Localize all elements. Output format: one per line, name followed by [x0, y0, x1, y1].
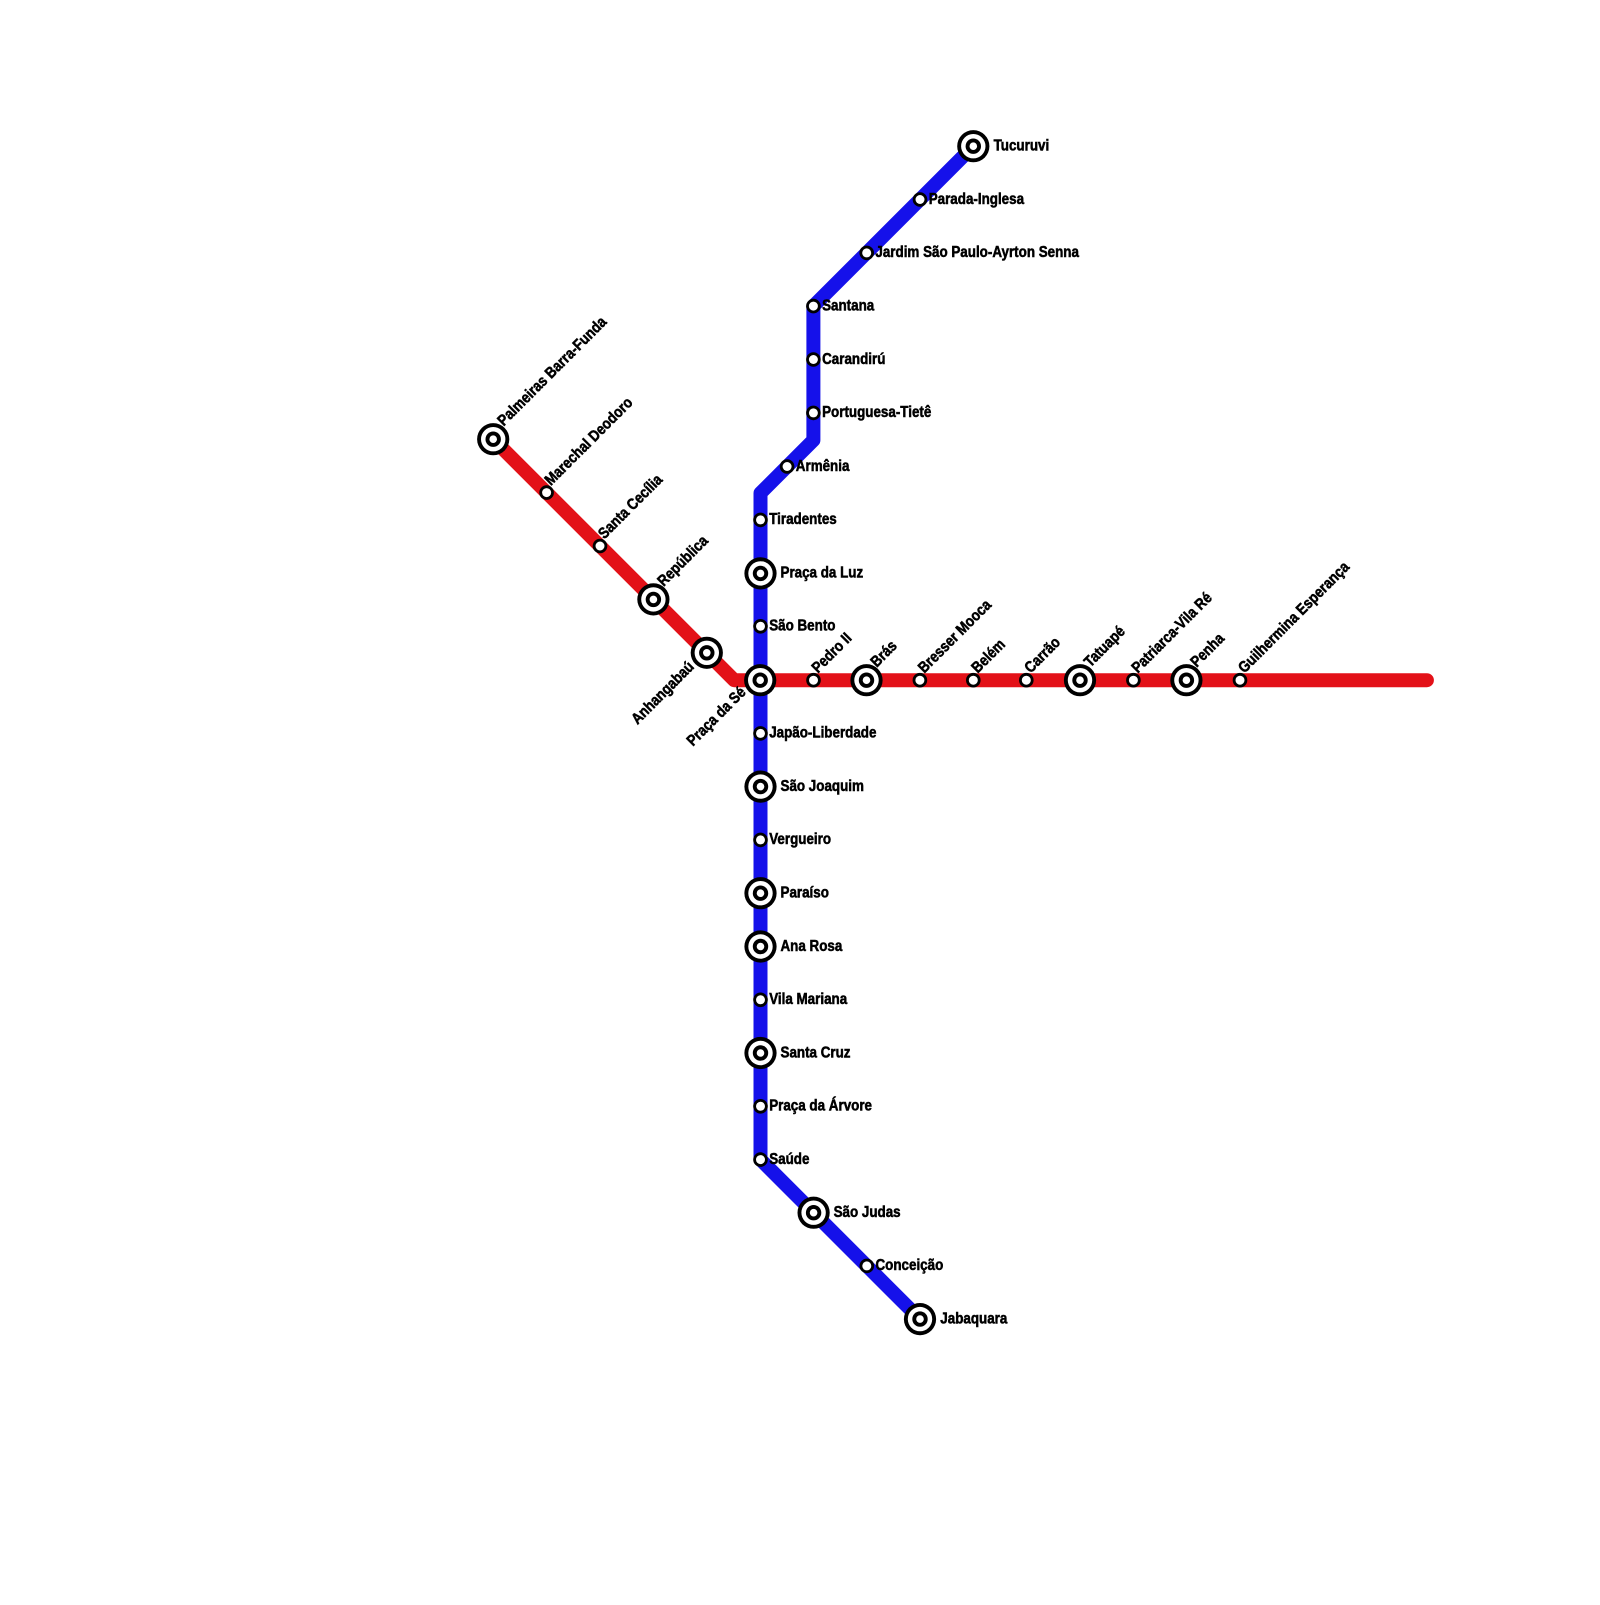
station Tatuapé [1064, 664, 1096, 696]
svg-text:Carandirú: Carandirú [822, 351, 885, 368]
station Patriarca-Vila Ré [1126, 673, 1141, 688]
station Penha [1170, 664, 1202, 696]
station São Joaquim [744, 771, 776, 803]
station Carrão [1019, 673, 1034, 688]
station Vergueiro [753, 833, 768, 848]
station Parada-Inglesa [913, 192, 928, 207]
svg-text:São Bento: São Bento [769, 618, 835, 635]
station Paraíso [744, 877, 776, 909]
svg-text:Armênia: Armênia [796, 458, 850, 475]
svg-text:Jabaquara: Jabaquara [940, 1311, 1008, 1328]
svg-text:Praça da Luz: Praça da Luz [781, 565, 864, 582]
svg-text:Tiradentes: Tiradentes [769, 511, 837, 528]
svg-text:Conceição: Conceição [876, 1257, 944, 1274]
station Brás [850, 664, 882, 696]
station Japão-Liberdade [753, 726, 768, 741]
svg-text:Vergueiro: Vergueiro [769, 831, 831, 848]
station Belém [966, 673, 981, 688]
svg-text:Santana: Santana [822, 298, 875, 315]
station Guilhermina Esperança [1233, 673, 1248, 688]
blue line 1 Tucuruvi to Jabaquara [761, 146, 974, 1319]
station Praça da Luz [744, 557, 776, 589]
station Carandirú [806, 352, 821, 367]
station Anhangabaú [691, 637, 723, 669]
svg-text:Paraíso: Paraíso [781, 885, 830, 902]
station Saúde [753, 1152, 768, 1167]
svg-text:Japão-Liberdade: Japão-Liberdade [769, 725, 876, 742]
station Praça da Sé [744, 664, 776, 696]
station Tiradentes [753, 513, 768, 528]
svg-text:São Judas: São Judas [834, 1204, 901, 1221]
station Ana Rosa [744, 930, 776, 962]
station Santa Cecília [593, 539, 608, 554]
svg-text:Tucuruvi: Tucuruvi [994, 138, 1050, 155]
station Jabaquara [904, 1303, 936, 1335]
svg-text:Praça da Árvore: Praça da Árvore [769, 1097, 872, 1115]
station São Judas [798, 1197, 830, 1229]
station Marechal Deodoro [539, 485, 554, 500]
svg-text:Ana Rosa: Ana Rosa [781, 938, 844, 955]
svg-text:Saúde: Saúde [769, 1151, 809, 1168]
svg-text:São Joaquim: São Joaquim [781, 778, 864, 795]
station Praça da Árvore [753, 1099, 768, 1114]
station Santa Cruz [744, 1037, 776, 1069]
svg-text:Parada-Inglesa: Parada-Inglesa [929, 191, 1025, 208]
station Tucuruvi [957, 130, 989, 162]
station Santana [806, 299, 821, 314]
station Vila Mariana [753, 993, 768, 1008]
station Bresser Mooca [913, 673, 928, 688]
red line 3 Palmeiras Barra-Funda to east [493, 439, 1427, 680]
station Armênia [780, 459, 795, 474]
svg-text:Santa Cruz: Santa Cruz [781, 1044, 851, 1061]
station Conceição [860, 1259, 875, 1274]
svg-text:Portuguesa-Tietê: Portuguesa-Tietê [822, 404, 931, 421]
station Pedro II [806, 673, 821, 688]
svg-text:Jardim São Paulo-Ayrton Senna: Jardim São Paulo-Ayrton Senna [875, 244, 1079, 261]
station Jardim São Paulo-Ayrton Senna [859, 246, 874, 261]
station São Bento [753, 619, 768, 634]
svg-text:Vila Mariana: Vila Mariana [769, 991, 848, 1008]
station República [637, 583, 669, 615]
station Portuguesa-Tietê [806, 406, 821, 421]
station Palmeiras Barra-Funda [477, 423, 509, 455]
